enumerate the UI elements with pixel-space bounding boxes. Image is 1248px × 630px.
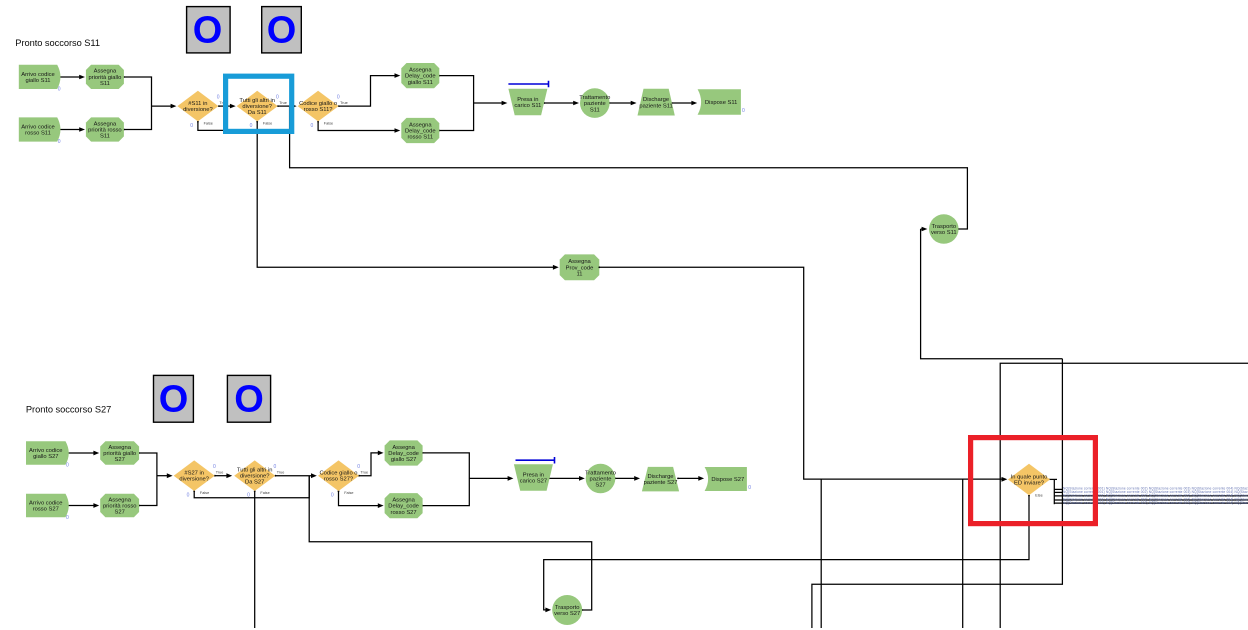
svg-text:0: 0 (58, 87, 61, 93)
picture box O 1 (S11) (187, 7, 231, 53)
svg-text:True: True (279, 101, 287, 105)
svg-text:O: O (159, 379, 189, 421)
svg-text:False: False (324, 121, 333, 125)
svg-text:False: False (260, 491, 269, 495)
svg-text:Dischargepaziente S27: Dischargepaziente S27 (644, 474, 678, 486)
svg-text:O: O (267, 10, 297, 52)
release Discharge paziente S27 (642, 467, 679, 492)
picture box O 2 (S11) (262, 7, 302, 53)
wire decide1 False S11 under blue box to decide3 (197, 106, 290, 130)
svg-text:In quale puntoED inviare?: In quale puntoED inviare? (1011, 475, 1048, 487)
create Arrivo codice giallo S11 (19, 65, 61, 89)
seize Presa in carico S11 (508, 89, 547, 116)
wire Trasporto verso S11 feedback to decide3 (290, 106, 968, 230)
svg-text:0: 0 (276, 94, 279, 100)
svg-text:False: False (263, 121, 272, 125)
svg-text:O: O (193, 10, 223, 52)
arrow into Trasporto verso S27 left (0, 0, 1, 1)
svg-text:Tutti gli altri indiversione?D: Tutti gli altri indiversione?Da S11 (239, 98, 275, 116)
release Discharge paziente S11 (638, 89, 675, 116)
create Arrivo codice rosso S11 (19, 117, 61, 141)
counter 0 of create giallo S11 (58, 87, 61, 93)
svg-text:False: False (204, 121, 213, 125)
wire ED branch lines to right edge (1054, 496, 1248, 503)
svg-text:0: 0 (66, 515, 69, 521)
svg-text:Presa incarico S27: Presa incarico S27 (520, 472, 547, 484)
queue line of Presa in carico S11 (508, 81, 548, 88)
wire assigns S11 merge to decide1 (123, 76, 176, 130)
wire ED Else to Trasporto verso S27 (544, 495, 1030, 613)
wire Presa S11 to Trattamento (543, 101, 579, 106)
svg-text:0: 0 (247, 493, 250, 499)
red highlight rectangle around decide ED (971, 438, 1096, 524)
decide #S27 in diversione (174, 460, 215, 491)
arrow into Trasporto verso S11 (921, 227, 928, 232)
process Trattamento paziente S27 (585, 464, 616, 494)
wire corner at (1000,363) going right and down (1000, 363, 1248, 628)
svg-text:Trasportoverso S27: Trasportoverso S27 (554, 605, 580, 617)
wire Prov_code 11 to decide ED (598, 266, 1007, 481)
tiny branch condition labels of decide ED (1063, 486, 1248, 505)
svg-text:False: False (200, 491, 209, 495)
labels of decide2 S11 (250, 94, 287, 129)
wire Trasporto verso S27 feedback to decide3 (309, 476, 592, 611)
wire Discharge S11 to Dispose (671, 101, 697, 106)
svg-text:Trasportoverso S11: Trasportoverso S11 (931, 224, 957, 236)
svg-text:0: 0 (66, 462, 69, 468)
decide Tutti gli altri in diversione Da S11 (237, 91, 278, 122)
svg-text:0: 0 (213, 464, 216, 470)
svg-text:NQ(Stazione corrente 001) NQ(: NQ(Stazione corrente 001) NQ(Stazione co… (1063, 501, 1248, 505)
svg-text:Arrivo codicegiallo S11: Arrivo codicegiallo S11 (21, 72, 55, 84)
assign Assegna priorita rosso S11 (86, 117, 124, 141)
queue line of Presa in carico S27 (516, 457, 555, 464)
counter 0 of create rosso S11 (58, 139, 61, 145)
svg-text:0: 0 (357, 464, 360, 470)
blue highlight square around decide2 S11 (226, 76, 292, 131)
svg-text:Pronto soccorso S27: Pronto soccorso S27 (26, 404, 111, 414)
wire decide1 False S27 to decide3 (193, 476, 309, 498)
labels of decide3 S11 (311, 94, 348, 129)
svg-text:0: 0 (58, 139, 61, 145)
svg-text:AssegnaDelay_codegiallo S11: AssegnaDelay_codegiallo S11 (405, 67, 436, 85)
labels of decide1 S11 (190, 94, 227, 129)
svg-text:AssegnaDelay_codegiallo S27: AssegnaDelay_codegiallo S27 (388, 445, 419, 463)
process Trattamento paziente S11 (579, 88, 610, 118)
dispose Dispose S11 (698, 89, 741, 115)
title Pronto soccorso S11 (15, 38, 100, 48)
label Else of decide ED (1035, 493, 1042, 497)
svg-text:0: 0 (217, 94, 220, 100)
dispose Dispose S27 (705, 467, 747, 491)
svg-text:Arrivo codicerosso S11: Arrivo codicerosso S11 (21, 124, 55, 136)
wire create giallo S11 to assign (57, 75, 85, 80)
wire create rosso S27 to assign (66, 503, 100, 508)
svg-text:Dispose S27: Dispose S27 (711, 477, 744, 483)
assign Assegna Delay_code rosso S11 (401, 118, 439, 143)
labels of decide2 S27 (247, 464, 284, 499)
wire decide3 True S27 to Assegna Delay_code giallo (358, 451, 384, 477)
wire Delay_code S11 outputs merge to Presa in carico (438, 75, 507, 132)
svg-text:Dischargepaziente S11: Dischargepaziente S11 (639, 97, 672, 109)
wire decide2 False S27 down off page (254, 490, 256, 628)
wire ED branch to Trasporto verso S11 (921, 229, 1063, 504)
wire create rosso S11 to assign (57, 127, 85, 132)
svg-text:Arrivo codicegiallo S27: Arrivo codicegiallo S27 (29, 448, 63, 460)
wire Trattamento S27 to Discharge (614, 476, 640, 481)
wire assigns S27 merge to decide1 (138, 452, 172, 506)
wire decide1 True S11 to decide2 (218, 104, 236, 109)
wire decide2 True S27 to decide3 (275, 473, 317, 478)
create Arrivo codice rosso S27 (26, 494, 69, 517)
wire decide2 True S11 to decide3 (277, 104, 297, 109)
svg-text:0: 0 (742, 108, 745, 114)
wire Discharge S27 to Dispose (677, 476, 704, 481)
decide Codice giallo o rosso S27 (318, 460, 359, 491)
svg-text:0: 0 (190, 123, 193, 129)
svg-text:0: 0 (331, 493, 334, 499)
decide Tutti gli altri in diversione Da S27 (234, 460, 275, 491)
svg-text:Pronto soccorso S11: Pronto soccorso S11 (15, 38, 100, 48)
junction wire down from decide ED input at x821 (820, 479, 822, 628)
svg-text:Presa incarico S11: Presa incarico S11 (514, 97, 541, 109)
create Arrivo codice giallo S27 (26, 441, 69, 464)
assign Assegna priorita giallo S27 (100, 441, 139, 464)
decide In quale punto ED inviare (1008, 464, 1050, 495)
svg-text:0: 0 (311, 123, 314, 129)
counter 0 of create giallo S27 (66, 462, 69, 468)
svg-text:0: 0 (337, 94, 340, 100)
picture box O 1 (S27) (154, 375, 194, 422)
assign Assegna Delay_code giallo S27 (385, 440, 423, 465)
wire Delay_code S27 outputs merge to Presa in carico (422, 452, 514, 507)
svg-text:0: 0 (274, 464, 277, 470)
svg-text:True: True (277, 470, 285, 474)
counter 0 of Dispose S27 (748, 485, 751, 491)
assign Assegna priorita rosso S27 (100, 494, 139, 517)
svg-text:AssegnaDelay_coderosso S27: AssegnaDelay_coderosso S27 (388, 498, 419, 516)
assign Assegna Prov_code 11 (560, 254, 600, 280)
svg-text:O: O (234, 379, 264, 421)
assign Assegna Delay_code giallo S11 (401, 63, 439, 88)
process Trasporto verso S27 (552, 595, 582, 625)
counter 0 of Dispose S11 (742, 108, 745, 114)
svg-text:False: False (344, 491, 353, 495)
svg-text:Tutti gli altri indiversione?D: Tutti gli altri indiversione?Da S27 (237, 468, 273, 486)
wire decide1 True S27 to decide2 (214, 473, 232, 478)
picture box O 2 (S27) (227, 375, 270, 422)
decide #S11 in diversione (177, 91, 218, 122)
title Pronto soccorso S27 (26, 404, 111, 414)
process Trasporto verso S11 (929, 214, 959, 244)
svg-text:Dispose S11: Dispose S11 (705, 100, 737, 106)
wire decide3 False S27 to Assegna Delay_code rosso (338, 490, 384, 508)
wire decide3 False S11 to Assegna Delay_code rosso (317, 121, 400, 133)
wire decide3 True S11 to Assegna Delay_code giallo (338, 73, 400, 107)
assign Assegna Delay_code rosso S27 (385, 493, 423, 518)
svg-text:Codice giallo orosso S27?: Codice giallo orosso S27? (319, 471, 357, 483)
wire Trattamento S11 to Discharge (609, 101, 637, 106)
svg-text:Arrivo codicerosso S27: Arrivo codicerosso S27 (29, 500, 63, 512)
assign Assegna priorita giallo S11 (86, 65, 124, 89)
seize Presa in carico S27 (514, 464, 553, 491)
wire Presa S27 to Trattamento (548, 476, 585, 481)
decide Codice giallo o rosso S11 (298, 91, 339, 122)
svg-text:True: True (361, 470, 369, 474)
svg-text:0: 0 (250, 123, 253, 129)
svg-text:True: True (340, 101, 348, 105)
svg-text:0: 0 (187, 493, 190, 499)
svg-text:AssegnaDelay_coderosso S11: AssegnaDelay_coderosso S11 (405, 122, 436, 140)
svg-text:0: 0 (748, 485, 751, 491)
junction wire down from decide ED input at x962 (962, 479, 964, 628)
svg-text:Else: Else (1035, 493, 1042, 497)
wire ED long vertical x1062 (812, 359, 1063, 628)
svg-text:Codice giallo orosso S11?: Codice giallo orosso S11? (299, 101, 337, 113)
labels of decide1 S27 (187, 464, 224, 499)
wire decide2 False S11 down to Assegna Prov_code 11 (256, 121, 558, 270)
wire create giallo S27 to assign (66, 451, 100, 456)
counter 0 of create rosso S27 (66, 515, 69, 521)
labels of decide3 S27 (331, 464, 368, 499)
svg-text:True: True (216, 470, 224, 474)
